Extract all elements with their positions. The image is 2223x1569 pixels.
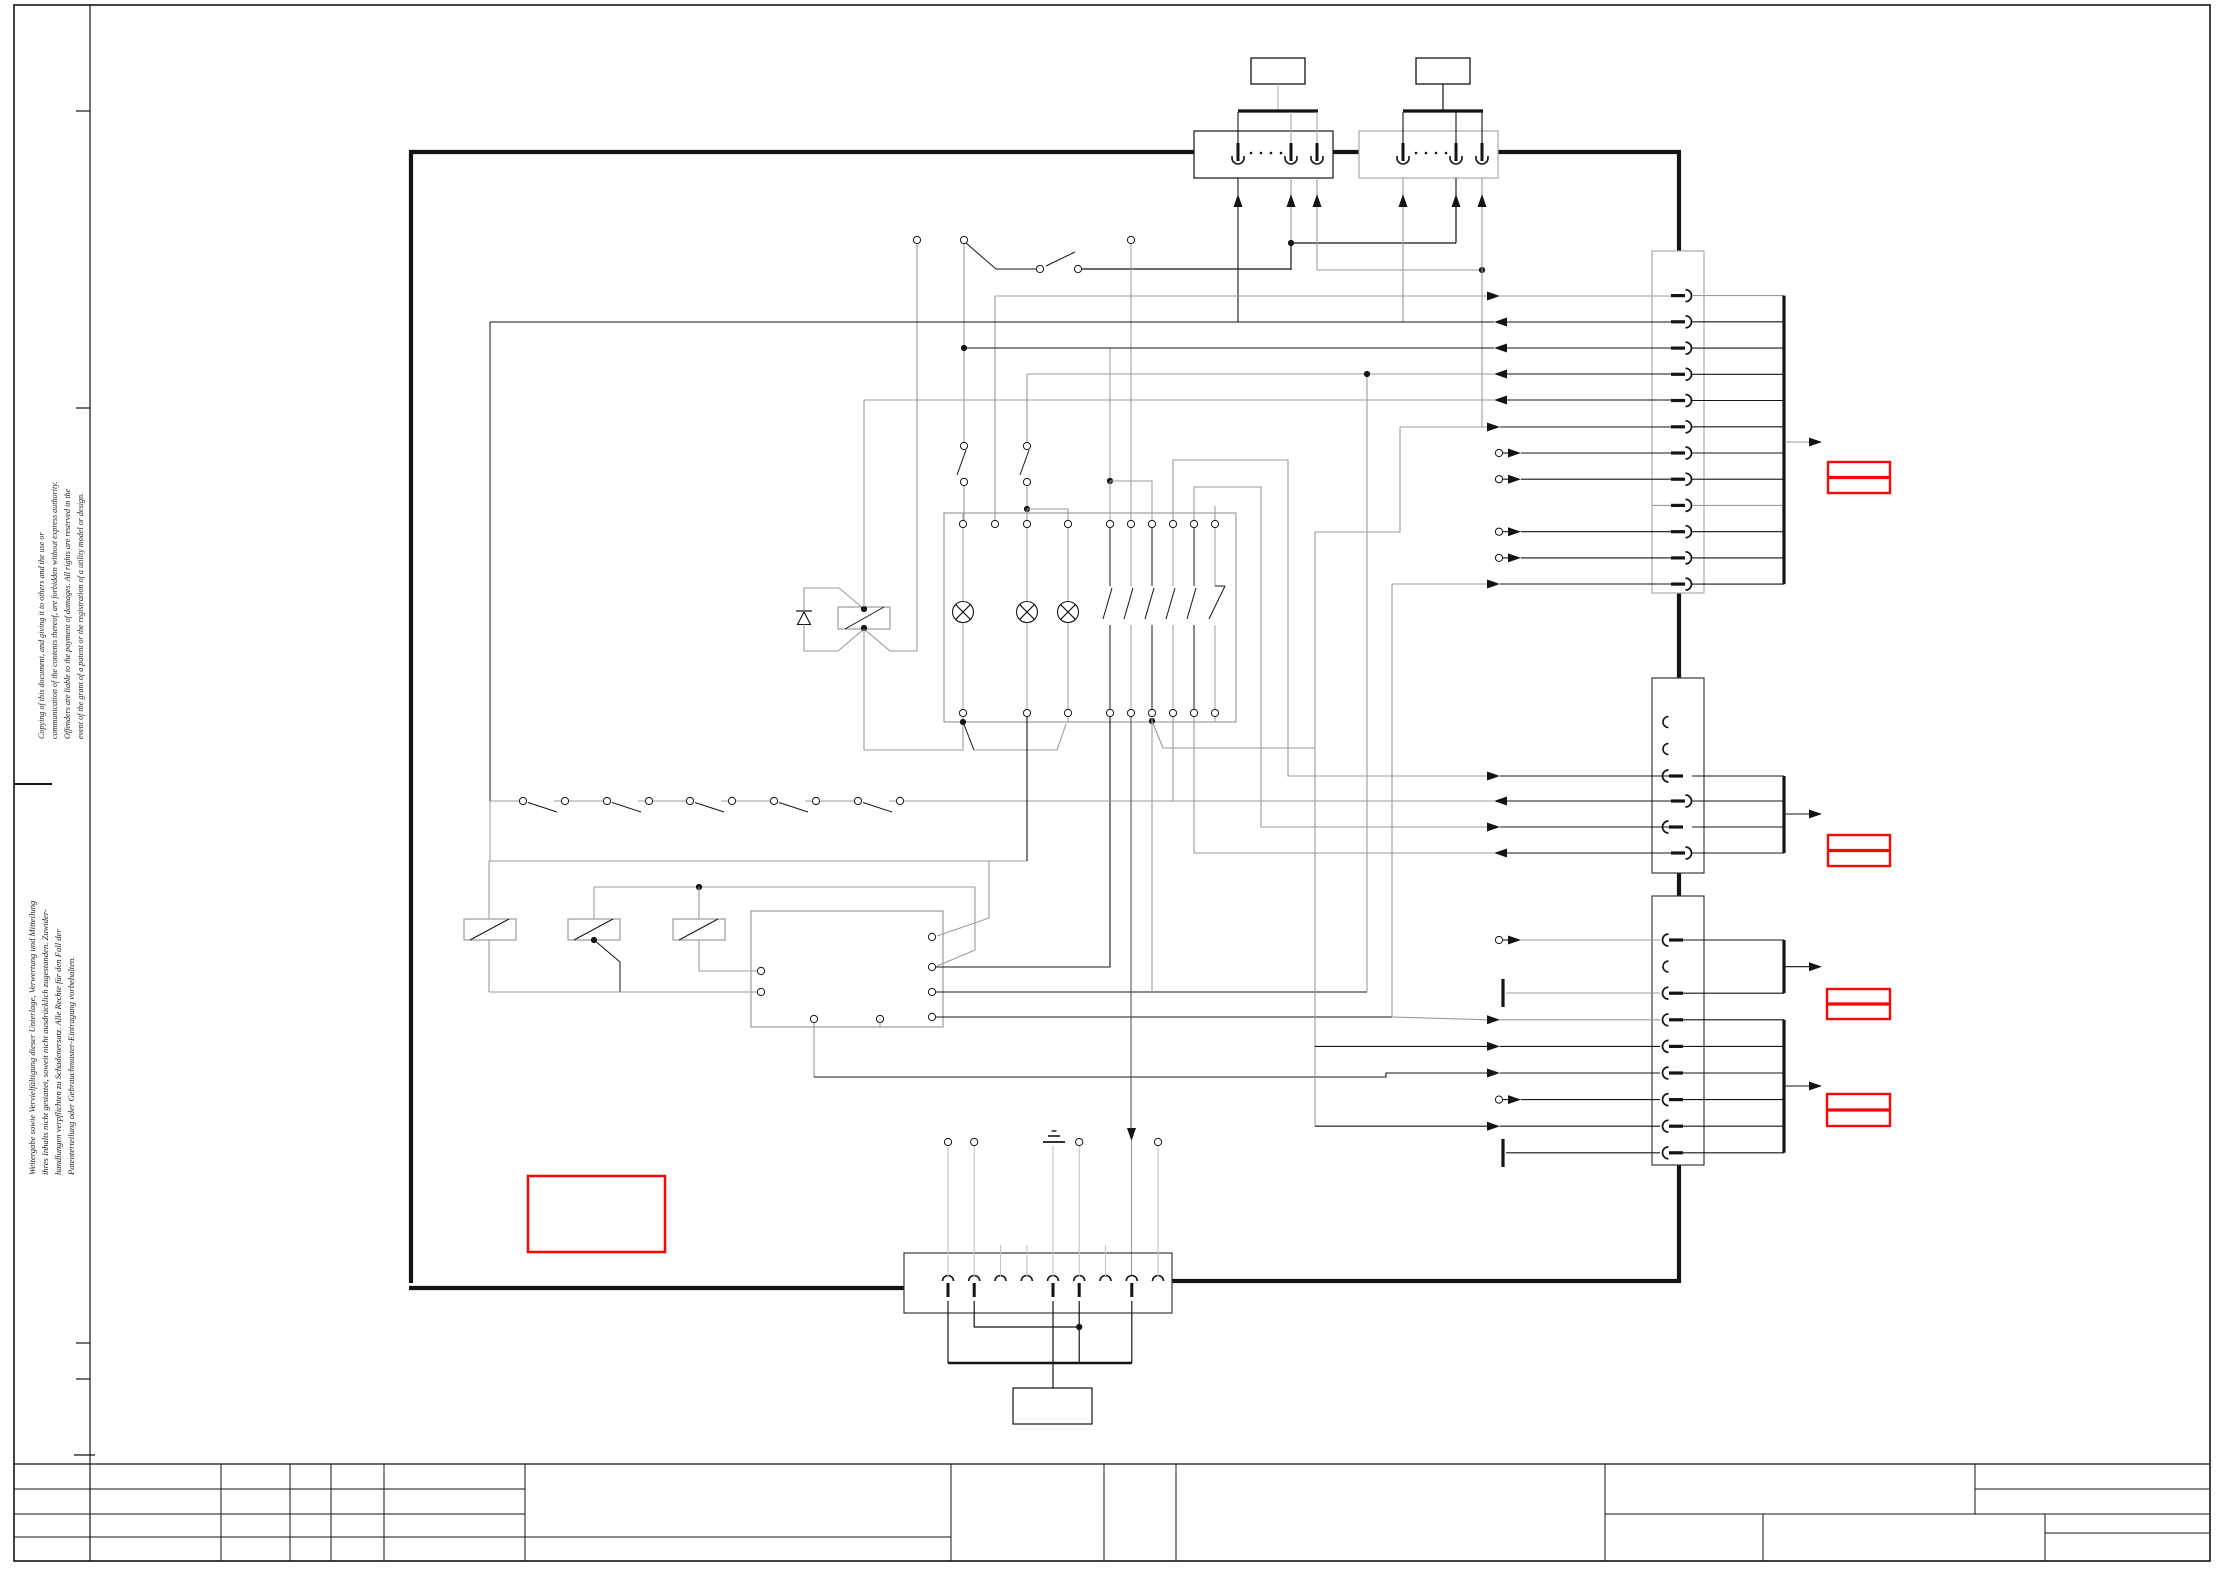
- K1 bottom terminal: [1214, 717, 1216, 722]
- X3 row9 stub: [1652, 504, 1671, 506]
- K1 top terminal: [1193, 513, 1195, 520]
- X3 row12 wire: [1392, 583, 1488, 585]
- earth symbol: [1043, 1141, 1065, 1143]
- X4 row6 arrowhead: [1494, 849, 1507, 858]
- terminal circle A: [913, 236, 920, 243]
- junction row3: [961, 345, 967, 351]
- junction row4: [1364, 371, 1370, 377]
- X3 row terminal circle: [1495, 476, 1502, 483]
- wire X1.2 down to junction: [1290, 207, 1292, 243]
- X3 to bus: [1692, 400, 1784, 402]
- row3 branch riser 1110: [1109, 348, 1111, 481]
- X3 socket row 11: [1671, 556, 1685, 559]
- switch S1: [1036, 265, 1043, 272]
- bus K2 to riser 1367: [936, 991, 1367, 993]
- X5 row4 wire: [1392, 1017, 1488, 1020]
- X6 socket 2: [969, 1276, 980, 1281]
- pin drop wire: [1455, 112, 1457, 146]
- X5 bus B arrow: [1785, 1085, 1810, 1087]
- feedback riser 490: [489, 322, 491, 801]
- pin drop wire: [1290, 112, 1292, 146]
- red highlight box R1: [1828, 462, 1890, 493]
- red highlight box R3: [1827, 989, 1890, 1019]
- X5 socket row 4: [1663, 1014, 1669, 1026]
- X4 arc row2: [1663, 744, 1669, 755]
- X6.1 wire down: [947, 1301, 949, 1363]
- junction: [861, 606, 867, 612]
- K1 bottom terminal: [962, 717, 964, 722]
- K1 bottom terminal: [1151, 717, 1153, 722]
- bus to K2 pin: [489, 991, 757, 993]
- X3 row2 wire: [490, 321, 1494, 323]
- X3 to bus: [1692, 321, 1784, 323]
- wire K1 pin1110 to K2: [936, 717, 1110, 967]
- junction: [696, 884, 702, 890]
- vertical NO contact S3: [1023, 442, 1030, 449]
- suppressor diode D1: [796, 610, 812, 612]
- arrow up: [1313, 194, 1322, 207]
- K1 contact at 1152: [1151, 528, 1153, 586]
- wire row4 to S3: [1026, 374, 1028, 442]
- X5 to bus: [1683, 1125, 1784, 1127]
- title block table: [14, 1463, 2209, 1465]
- X4 row3 arrowhead: [1487, 772, 1500, 781]
- X6 stub above: [1157, 1245, 1159, 1276]
- wire X1.1 down to bus: [1237, 207, 1239, 322]
- X5 collector bus B: [1782, 1020, 1785, 1153]
- K1 top 1215 stub: [1214, 506, 1216, 520]
- X4 collector bus: [1782, 776, 1785, 853]
- K5 down wire: [699, 940, 757, 971]
- X5 row9 supply bar terminal: [1501, 1139, 1504, 1167]
- X4 arc row1: [1663, 717, 1669, 728]
- wire label to bar: [1277, 84, 1279, 110]
- X5 socket row 8: [1663, 1120, 1669, 1132]
- K1 bottom terminal: [1026, 717, 1028, 722]
- socket pin: [1316, 143, 1319, 161]
- link to pin 1068: [1027, 509, 1068, 520]
- row6 jog: [1315, 427, 1400, 532]
- coil feed wire: [863, 400, 865, 607]
- socket pin: [1290, 143, 1293, 161]
- X3 row terminal circle: [1495, 528, 1502, 535]
- X5 arc row2: [1663, 961, 1669, 972]
- terminal circle C: [1127, 236, 1134, 243]
- separator dots: [1250, 152, 1253, 155]
- K1 top terminal: [1151, 513, 1153, 520]
- junction: [1024, 506, 1030, 512]
- X5 socket row 5: [1663, 1040, 1669, 1052]
- X4 row5 arrowhead: [1487, 823, 1500, 832]
- bottom connector X6 body: [904, 1253, 1172, 1313]
- socket cup: [1397, 158, 1409, 164]
- pin lead below connector: [1481, 178, 1483, 196]
- relay coil K5: [698, 887, 700, 919]
- pin drop wire: [1481, 112, 1483, 146]
- X6.2 wire down: [974, 1301, 1079, 1327]
- rail upper right drop: [937, 861, 989, 936]
- wire label to bar: [1442, 84, 1444, 110]
- K1 top terminal: [1214, 513, 1216, 520]
- wire 917 down to coil loop: [916, 244, 918, 651]
- terminal bar: [1403, 109, 1483, 112]
- connector body: [1359, 131, 1498, 178]
- X6 feed circle 2: [971, 1138, 978, 1145]
- jumper X1.2 to X2.2: [1291, 242, 1456, 244]
- pin1152 branch diagonal: [1152, 721, 1315, 748]
- limit switch Q5: [854, 797, 861, 804]
- wire to pin 1068: [974, 724, 1066, 750]
- X6 socket 7: [1100, 1276, 1111, 1281]
- X3 row4 wire: [1027, 373, 1494, 375]
- wire coil to K1 pin 963: [864, 724, 963, 750]
- wire S1 to riser: [1082, 268, 1291, 270]
- X5 to bus: [1683, 1019, 1784, 1021]
- K1 bottom terminal: [1172, 717, 1174, 722]
- cabinet enclosure outline (thick): [409, 150, 1194, 154]
- K2 bottom wire to X5 row: [813, 1023, 815, 1077]
- junction: [1288, 240, 1294, 246]
- limit switch Q4: [770, 797, 777, 804]
- X5 socket row 3: [1663, 987, 1669, 999]
- X3 to bus: [1692, 531, 1784, 533]
- socket pin: [1402, 143, 1405, 161]
- X3 socket row 12: [1671, 582, 1685, 585]
- junction at K4: [591, 937, 597, 943]
- X3 to bus: [1692, 347, 1784, 349]
- X3 to bus: [1692, 295, 1784, 297]
- relay coil K3: [488, 861, 490, 919]
- X5 collector bus A: [1782, 940, 1785, 993]
- X6 feed circle 9: [1154, 1138, 1161, 1145]
- X3 socket row 6: [1671, 425, 1685, 428]
- interface block K2 body: [751, 911, 943, 1027]
- vertical NO contact S2: [960, 442, 967, 449]
- K2 right terminals: [928, 933, 935, 940]
- connector strip X5 body: [1652, 896, 1704, 1165]
- X5 row1 terminal circle: [1495, 936, 1502, 943]
- X3 socket row 2: [1671, 320, 1685, 323]
- socket cup: [1311, 158, 1323, 164]
- riser 1367 from row4: [1366, 374, 1368, 992]
- separator dots: [1415, 152, 1418, 155]
- contactor coil K1: [838, 607, 890, 629]
- limit switch Q1: [519, 797, 526, 804]
- X5 row6 arrowhead: [1487, 1069, 1500, 1078]
- K1 top terminal: [1172, 513, 1174, 520]
- wire X1.3 down: [1316, 207, 1318, 270]
- limit switch Q2: [603, 797, 610, 804]
- X4 bus arrow: [1785, 813, 1810, 815]
- motor label box: [1013, 1388, 1092, 1424]
- X6.6 wire down: [1078, 1301, 1080, 1363]
- arrow up: [1287, 194, 1296, 207]
- wire X2.1 down to bus: [1402, 207, 1404, 322]
- pin lead below connector: [1316, 178, 1318, 196]
- socket pin: [1237, 143, 1240, 161]
- K1 top terminal: [962, 513, 964, 520]
- X5 row5 wire: [1315, 1045, 1488, 1047]
- arrow up: [1234, 194, 1243, 207]
- X3 row3 wire: [964, 347, 1494, 349]
- riser 1315: [1314, 532, 1316, 1126]
- socket cup: [1450, 158, 1462, 164]
- X3 socket row 3: [1671, 347, 1685, 350]
- X3 socket row 1: [1671, 294, 1685, 297]
- X5 row8 wire: [1315, 1125, 1488, 1127]
- X5 socket row 7: [1663, 1094, 1669, 1106]
- X3 to bus: [1692, 504, 1784, 506]
- X4 row4 arrowhead: [1494, 797, 1507, 806]
- X3 to bus: [1692, 478, 1784, 480]
- connector strip X4 body: [1652, 678, 1704, 873]
- label box: [1416, 58, 1470, 84]
- K2 left terminals: [757, 967, 764, 974]
- switch chain wire: [490, 800, 519, 802]
- X6 socket 3: [995, 1276, 1006, 1281]
- K1 bottom terminal: [1130, 717, 1132, 722]
- K3 down wire: [488, 940, 490, 992]
- switch row wire to right: [905, 800, 1494, 802]
- X3 to bus: [1692, 426, 1784, 428]
- X4 socket row5: [1663, 821, 1669, 833]
- K1 pin 1027 riser to control rail: [1026, 717, 1028, 861]
- blade contact below K1: [963, 722, 974, 750]
- wire to switch S1: [996, 268, 1037, 270]
- K1 bottom terminal: [1109, 717, 1111, 722]
- X6 socket 8: [1126, 1276, 1137, 1281]
- junction: [1479, 267, 1485, 273]
- riser 1288 (K1 top 1173): [1173, 460, 1490, 776]
- control rail upper: [489, 860, 1027, 862]
- X3 socket row 7: [1671, 451, 1685, 454]
- K1 contact at 1194: [1193, 528, 1195, 586]
- X5 row3 supply bar terminal: [1501, 979, 1504, 1007]
- limit switch Q3: [686, 797, 693, 804]
- pin drop wire: [1316, 112, 1318, 146]
- K1 bottom terminal: [1193, 717, 1195, 722]
- control rail lower: [594, 886, 975, 888]
- X5 to bus: [1683, 1152, 1784, 1154]
- socket pin: [1455, 143, 1458, 161]
- X3 to bus: [1692, 583, 1784, 585]
- junction: [1076, 1324, 1082, 1330]
- X6 socket 6: [1074, 1276, 1085, 1281]
- X3 row6 wire: [1400, 426, 1488, 428]
- diode loop wiring: [804, 588, 864, 611]
- K1 top terminal: [1026, 513, 1028, 520]
- X6 socket 1: [943, 1276, 954, 1281]
- K2 bottom terminals: [810, 1015, 817, 1022]
- K1 contact at 1131: [1130, 528, 1132, 586]
- X6 socket 4: [1021, 1276, 1032, 1282]
- left margin divider: [89, 5, 91, 1561]
- X3 row terminal circle: [1495, 554, 1502, 561]
- german disclaimer text: [26, 895, 78, 1175]
- X6 socket 9: [1153, 1276, 1164, 1281]
- X4 socket row4: [1671, 799, 1685, 802]
- X6 feed circle 6: [1076, 1138, 1083, 1145]
- X5 to bus: [1683, 1072, 1784, 1074]
- K1 bottom terminal: [1067, 717, 1069, 722]
- label box: [1251, 58, 1305, 84]
- indicator lamp at 963: [962, 528, 964, 601]
- X5 bus A arrow: [1785, 966, 1810, 968]
- X5 to bus wires: [1683, 939, 1784, 941]
- K1 top terminal: [994, 513, 996, 520]
- riser 1392 row12 to row 1017: [1391, 584, 1393, 1017]
- arrow up: [1478, 194, 1487, 207]
- X5 socket row 1: [1663, 934, 1669, 946]
- riser 1482 down to row6: [1481, 270, 1483, 427]
- pin lead below connector: [1455, 178, 1457, 196]
- X4 socket row3: [1663, 770, 1669, 782]
- terminal circle B: [960, 236, 967, 243]
- socket cup: [1285, 158, 1297, 164]
- X6.8 wire down: [1131, 1301, 1133, 1363]
- junction: [1107, 478, 1113, 484]
- X3 socket row 5: [1671, 399, 1685, 402]
- X3 to bus: [1692, 557, 1784, 559]
- pin drop wire: [1237, 112, 1239, 146]
- K1 pin 1131 long drop: [1130, 717, 1132, 1128]
- switch blade from B: [966, 243, 996, 269]
- X4 to bus: [1692, 775, 1784, 777]
- rail lower right drop: [937, 887, 975, 966]
- K1 top terminal: [1067, 513, 1069, 520]
- red highlight box R4: [1827, 1094, 1890, 1126]
- junction pin1152: [1149, 718, 1155, 724]
- X4 to bus: [1692, 852, 1784, 854]
- red highlight box R2: [1828, 835, 1890, 866]
- connector body: [1194, 131, 1333, 178]
- wire riser from switch bus: [1290, 243, 1292, 270]
- X6 stub above: [1026, 1245, 1028, 1276]
- wire X2.3 down: [1481, 207, 1483, 270]
- pin drop wire: [1402, 112, 1404, 146]
- X3 to bus: [1692, 452, 1784, 454]
- pin lead below connector: [1402, 178, 1404, 196]
- X3 row5 wire: [864, 399, 1494, 401]
- X5 to bus: [1683, 1099, 1784, 1101]
- K1 contact at 1173: [1172, 528, 1174, 586]
- X3 collector bus: [1782, 296, 1785, 584]
- X3 bus outgoing arrow: [1785, 441, 1810, 443]
- function block K1 body: [944, 513, 1236, 722]
- X3 row terminal circle: [1495, 449, 1502, 456]
- wire 964 down: [963, 244, 965, 442]
- X6 stub above: [1105, 1245, 1107, 1276]
- relay coil K4: [593, 887, 595, 919]
- arrow up: [1452, 194, 1461, 207]
- red marker box (empty): [528, 1176, 665, 1252]
- X3 socket row 10: [1671, 530, 1685, 533]
- K1 top terminal: [1109, 513, 1111, 520]
- indicator lamp at 1068: [1067, 528, 1069, 601]
- wire 1131 down to K1: [1130, 244, 1132, 520]
- socket pin: [1481, 143, 1484, 161]
- X6 socket 5: [1048, 1276, 1059, 1281]
- terminal bar: [1238, 109, 1318, 112]
- X4 socket row6: [1671, 851, 1685, 854]
- X6.5 wire to motor: [1052, 1301, 1054, 1388]
- arrow right: [1809, 438, 1822, 447]
- pin lead below connector: [1237, 178, 1239, 196]
- english disclaimer text: [36, 487, 88, 739]
- arrow down: [1127, 1128, 1136, 1141]
- X5 to bus: [1683, 1045, 1784, 1047]
- X3 socket row 9: [1671, 504, 1685, 507]
- X3 to bus: [1692, 373, 1784, 375]
- socket cup: [1476, 158, 1488, 164]
- riser 1261 (K1 top 1194): [1194, 487, 1490, 827]
- X6 stub above: [1000, 1245, 1002, 1276]
- X6 feed circle 1: [944, 1138, 951, 1145]
- X5 row7 terminal circle: [1495, 1096, 1502, 1103]
- pin lead below connector: [1290, 178, 1292, 196]
- K1 pin 1194 drop to row: [1194, 717, 1494, 853]
- bus K2 to riser 1392: [936, 1016, 1392, 1018]
- K1 pin 1173 drop: [1172, 717, 1174, 801]
- connector strip X3 body: [1652, 251, 1704, 593]
- X5 socket row 6: [1663, 1067, 1669, 1079]
- socket cup: [1232, 158, 1244, 164]
- K1 top terminal: [1130, 513, 1132, 520]
- arrow up: [1399, 194, 1408, 207]
- X4 to bus: [1692, 800, 1784, 802]
- indicator lamp at 1027: [1026, 528, 1028, 601]
- fold tick marks: [76, 110, 90, 112]
- junction: [861, 625, 867, 631]
- wire X1.3 over to 1482: [1317, 269, 1482, 271]
- X5 socket row 9: [1663, 1147, 1669, 1159]
- X4 to bus: [1692, 826, 1784, 828]
- equipotential bar: [948, 1362, 1132, 1365]
- junction at pin 963: [960, 719, 966, 725]
- X3 row1 wire: [995, 295, 1488, 297]
- K1 contact at 1110: [1109, 528, 1111, 586]
- X3 socket row 4: [1671, 373, 1685, 376]
- riser 995: [994, 296, 996, 520]
- K1 contact at 1215: [1214, 528, 1216, 586]
- X3 socket row 8: [1671, 478, 1685, 481]
